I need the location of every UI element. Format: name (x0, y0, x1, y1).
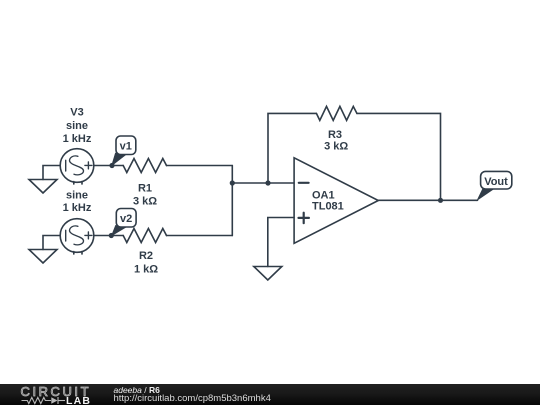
svg-text:Vout: Vout (484, 176, 508, 188)
svg-text:1 kHz: 1 kHz (63, 133, 92, 145)
svg-text:sine: sine (66, 190, 88, 202)
svg-text:v2: v2 (120, 213, 132, 225)
svg-text:R3: R3 (328, 129, 342, 141)
svg-text:3 kΩ: 3 kΩ (133, 195, 157, 207)
svg-text:V3: V3 (70, 107, 83, 119)
svg-text:3 kΩ: 3 kΩ (324, 141, 348, 153)
svg-text:v1: v1 (120, 140, 132, 152)
svg-text:R1: R1 (138, 182, 152, 194)
svg-text:R2: R2 (139, 250, 153, 262)
svg-text:1 kΩ: 1 kΩ (134, 264, 158, 276)
svg-text:sine: sine (66, 120, 88, 132)
svg-text:1 kHz: 1 kHz (63, 202, 92, 214)
svg-text:TL081: TL081 (312, 200, 344, 212)
